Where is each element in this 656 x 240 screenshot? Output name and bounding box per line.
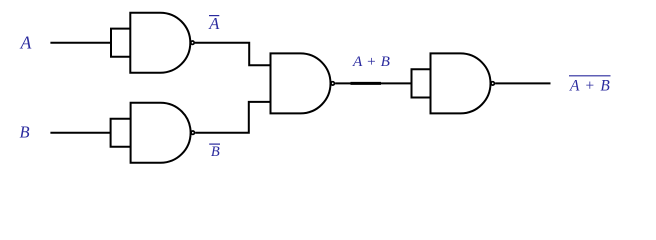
svg-text:B: B: [211, 144, 220, 160]
bubble U2 output: [191, 131, 194, 134]
bubble U1 output: [191, 41, 194, 44]
svg-text:A: A: [208, 14, 220, 33]
wire U2 tied-input bracket: [111, 119, 131, 147]
nand gate U4: [431, 53, 491, 113]
nand gate U2: [131, 103, 191, 163]
svg-text:B: B: [20, 123, 30, 142]
wire U4 tied-input bracket: [412, 69, 431, 97]
wire overlap thick segment: [351, 82, 382, 85]
wire A input: [50, 42, 111, 44]
wire B input: [50, 132, 110, 134]
svg-text:A + B: A + B: [569, 77, 611, 94]
wire U4 output: [495, 82, 550, 84]
bubble U3 output: [331, 82, 334, 85]
wire U3 output to U4: [335, 82, 411, 84]
overline of Bbar: [209, 143, 220, 145]
nand gate U3: [271, 53, 331, 113]
wire U2 output to U3 bottom input: [195, 102, 270, 133]
overline of A+B-bar: [569, 75, 611, 77]
svg-text:A + B: A + B: [352, 53, 390, 70]
bubble U4 output: [491, 82, 494, 85]
svg-text:A: A: [20, 32, 32, 52]
nand gate U1: [130, 13, 190, 73]
wire U1 output to U3 top input: [195, 43, 271, 65]
overline of Abar: [209, 15, 219, 17]
wire U1 tied-input bracket: [111, 29, 130, 57]
